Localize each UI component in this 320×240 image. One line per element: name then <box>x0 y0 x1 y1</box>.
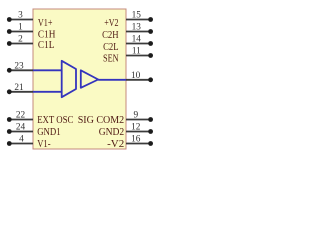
svg-text:C1H: C1H <box>38 29 56 40</box>
wire pin 4 left <box>8 143 33 145</box>
wire pin 2 left <box>8 43 33 45</box>
IC body U1 <box>33 9 126 149</box>
wire pin 14 right <box>126 43 151 45</box>
wire pin 21 left <box>8 91 33 93</box>
svg-text:22: 22 <box>16 111 26 121</box>
svg-text:C1L: C1L <box>38 40 55 51</box>
terminal dot pin 4 <box>7 141 12 146</box>
output buffer amplifier (triangle) <box>81 70 98 88</box>
wire pin 23 left <box>8 69 33 71</box>
wire pin 23 to modulator input (blue) <box>33 69 62 71</box>
terminal dot pin 15 <box>148 17 153 22</box>
terminal dot pin 24 <box>7 129 12 134</box>
svg-text:1: 1 <box>18 23 23 33</box>
wire pin 1 left <box>8 31 33 33</box>
svg-text:24: 24 <box>16 123 26 133</box>
terminal dot pin 1 <box>7 29 12 34</box>
svg-text:C2L: C2L <box>103 42 119 53</box>
svg-text:GND2: GND2 <box>99 127 125 138</box>
svg-text:2: 2 <box>18 35 23 45</box>
svg-text:9: 9 <box>133 111 138 121</box>
wire pin 9 right <box>126 119 151 121</box>
svg-text:10: 10 <box>131 71 141 81</box>
terminal dot pin 9 <box>148 117 153 122</box>
svg-text:C2H: C2H <box>102 30 119 41</box>
svg-text:V1+: V1+ <box>38 18 53 29</box>
svg-text:15: 15 <box>132 11 142 21</box>
svg-text:3: 3 <box>18 11 23 21</box>
svg-text:13: 13 <box>132 23 142 33</box>
wire pin 3 left <box>8 19 33 21</box>
terminal dot pin 23 <box>7 68 12 73</box>
wire pin 22 left <box>8 119 33 121</box>
svg-text:21: 21 <box>14 83 24 93</box>
svg-text:14: 14 <box>132 35 142 45</box>
terminal dot pin 2 <box>7 41 12 46</box>
terminal dot pin 12 <box>148 129 153 134</box>
svg-text:SIG COM2: SIG COM2 <box>78 115 125 126</box>
wire pin 21 to modulator input (blue) <box>33 91 62 93</box>
terminal dot pin 21 <box>7 89 12 94</box>
wire pin 13 right <box>126 31 151 33</box>
wire pin 12 right <box>126 131 151 133</box>
wire pin 11 right <box>126 55 151 57</box>
terminal dot pin 13 <box>148 29 153 34</box>
terminal dot pin 16 <box>148 141 153 146</box>
wire pin 10 right <box>126 79 151 81</box>
svg-text:23: 23 <box>14 61 24 71</box>
wire buffer output to pin 10 (blue) <box>98 79 126 81</box>
svg-text:-V2: -V2 <box>107 139 124 150</box>
wire pin 15 right <box>126 19 151 21</box>
terminal dot pin 3 <box>7 17 12 22</box>
svg-text:16: 16 <box>131 135 141 145</box>
wire pin 16 right <box>126 143 151 145</box>
terminal dot pin 14 <box>148 41 153 46</box>
terminal dot pin 11 <box>148 53 153 58</box>
svg-text:EXT OSC: EXT OSC <box>37 115 73 126</box>
svg-text:SEN: SEN <box>103 53 119 64</box>
svg-text:12: 12 <box>131 123 141 133</box>
svg-text:+V2: +V2 <box>104 18 118 29</box>
terminal dot pin 22 <box>7 117 12 122</box>
modulator amplifier (trapezoid) <box>62 61 76 97</box>
wire pin 24 left <box>8 131 33 133</box>
terminal dot pin 10 <box>148 77 153 82</box>
svg-text:V1-: V1- <box>37 139 51 150</box>
svg-text:4: 4 <box>19 135 24 145</box>
svg-text:11: 11 <box>132 47 141 57</box>
svg-text:GND1: GND1 <box>37 127 60 138</box>
